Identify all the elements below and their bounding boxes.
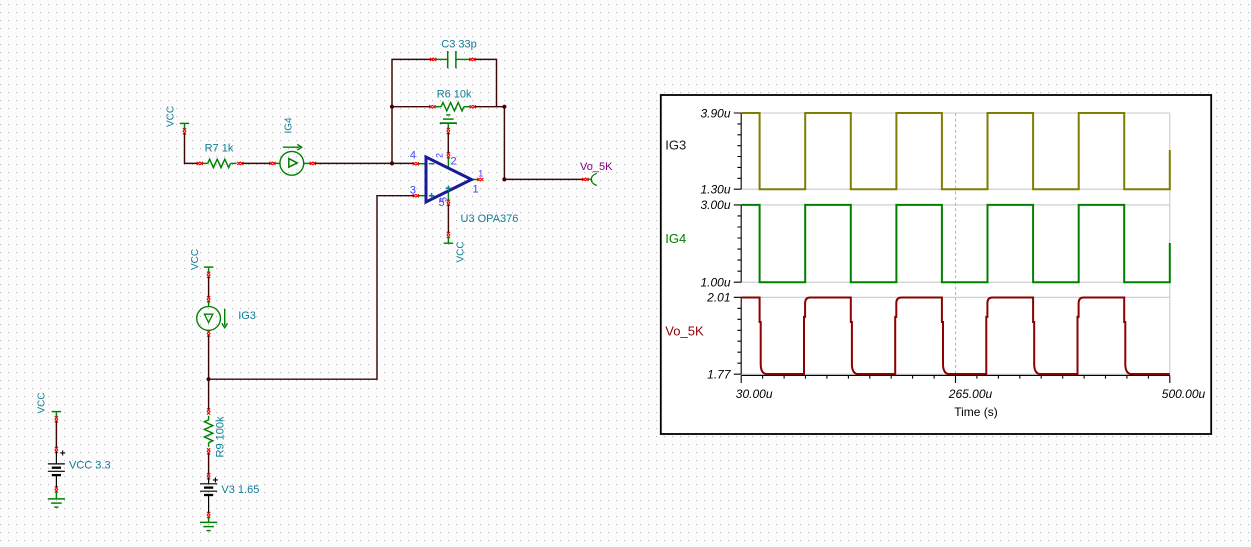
svg-text:3.90u: 3.90u [700, 106, 730, 120]
svg-text:IG4: IG4 [284, 117, 295, 134]
svg-text:2: 2 [435, 153, 445, 158]
svg-text:1.77: 1.77 [707, 367, 732, 381]
svg-text:2.01: 2.01 [706, 291, 730, 305]
svg-text:3.00u: 3.00u [700, 198, 730, 212]
svg-text:500.00u: 500.00u [1162, 387, 1206, 401]
svg-text:4: 4 [410, 150, 416, 162]
svg-text:1.00u: 1.00u [700, 275, 730, 289]
svg-text:V3 1.65: V3 1.65 [221, 484, 259, 496]
svg-text:+: + [60, 449, 66, 460]
svg-text:U3 OPA376: U3 OPA376 [461, 213, 519, 225]
svg-text:IG3: IG3 [238, 310, 256, 322]
svg-text:VCC: VCC [190, 249, 201, 270]
svg-text:265.00u: 265.00u [948, 387, 993, 401]
svg-text:IG4: IG4 [665, 231, 686, 246]
svg-text:1.30u: 1.30u [700, 182, 730, 196]
svg-text:R7 1k: R7 1k [205, 143, 234, 155]
svg-text:Vo_5K: Vo_5K [665, 324, 704, 339]
svg-text:R6 10k: R6 10k [437, 89, 472, 101]
svg-text:R9 100k: R9 100k [214, 416, 226, 457]
svg-text:Vo_5K: Vo_5K [580, 161, 613, 173]
svg-text:1: 1 [478, 169, 483, 179]
svg-text:5: 5 [439, 197, 449, 202]
svg-text:VCC: VCC [37, 392, 48, 413]
svg-text:Time (s): Time (s) [954, 405, 998, 419]
svg-text:VCC 3.3: VCC 3.3 [69, 459, 111, 471]
svg-text:2: 2 [451, 156, 457, 168]
svg-text:+: + [213, 475, 219, 486]
svg-text:1: 1 [473, 184, 479, 196]
svg-text:3: 3 [410, 185, 416, 197]
svg-text:VCC: VCC [166, 106, 177, 127]
svg-text:C3 33p: C3 33p [441, 39, 476, 51]
svg-text:VCC: VCC [456, 241, 467, 262]
svg-text:IG3: IG3 [665, 137, 686, 152]
svg-text:30.00u: 30.00u [736, 387, 773, 401]
